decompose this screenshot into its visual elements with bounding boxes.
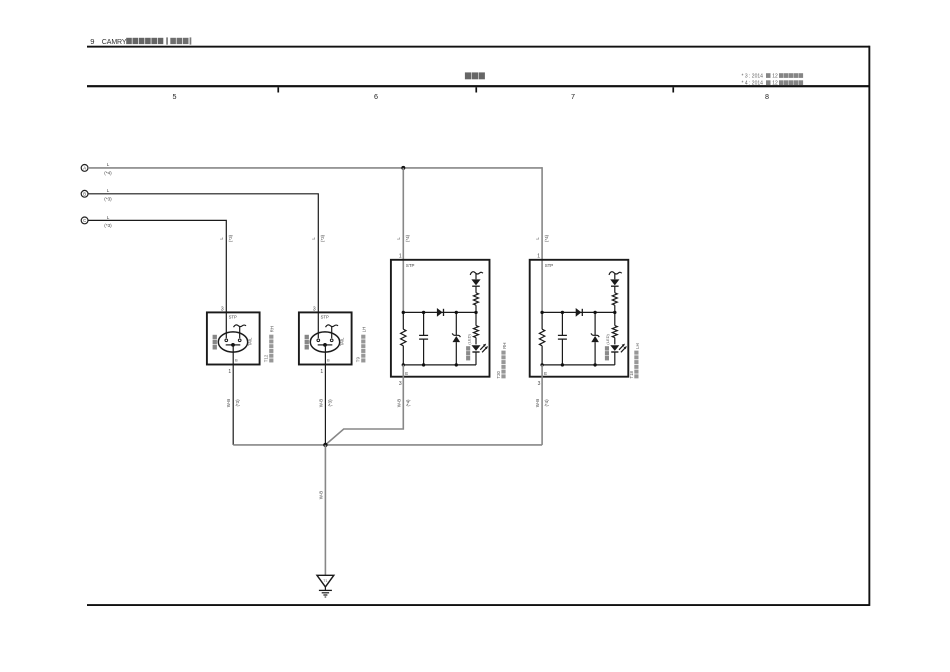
svg-text:W-B: W-B	[318, 399, 323, 408]
wire label W-B (*3) at x=233.2	[226, 399, 240, 408]
svg-text:TAIL: TAIL	[248, 337, 253, 346]
svg-text:T1: T1	[323, 579, 327, 583]
svg-text:12: 12	[772, 74, 778, 80]
wire T20 to ground bus	[325, 365, 403, 445]
title 刹车灯	[465, 72, 485, 79]
svg-text:CAMRY: CAMRY	[102, 39, 127, 46]
bottom frame rule	[87, 604, 870, 606]
svg-text:W-B: W-B	[535, 399, 540, 408]
diode in T20 on top rail	[437, 308, 444, 317]
node dot T20 bottom rail x=424	[422, 363, 425, 366]
svg-text:STP: STP	[406, 263, 415, 268]
resistor in T20 tail branch	[474, 293, 479, 305]
T20 designation T20 label	[496, 343, 507, 379]
svg-text:(*3): (*3)	[327, 399, 332, 407]
T18 main wire internal segs	[541, 312, 543, 365]
node dot T18 top rail x=595	[593, 311, 596, 314]
ground wire	[324, 445, 326, 575]
connector circle A	[81, 165, 88, 172]
wire label L (*4) at x=542.1	[535, 234, 549, 242]
wire label L (*3)	[104, 215, 112, 228]
svg-text:7: 7	[571, 92, 575, 101]
node junction on wire A	[401, 166, 405, 170]
T18 stop LED rotated label	[605, 333, 610, 360]
svg-text:RH: RH	[502, 343, 507, 349]
bulb T9 envelope	[310, 332, 339, 352]
svg-text:(*4): (*4)	[544, 399, 549, 407]
resistor in T18 stop branch	[612, 312, 617, 344]
note *4 production date	[742, 80, 804, 86]
wire label L (*4) at x=403.3	[396, 234, 410, 242]
wire C	[88, 220, 226, 312]
rear combination lamp T9 box	[299, 312, 352, 364]
bulb T12 common bar	[226, 344, 241, 346]
ruler tick 2	[475, 87, 477, 92]
capacitor in T18	[558, 312, 567, 365]
wire T12 to ground bus	[232, 345, 234, 445]
T20 tail squiggle	[470, 272, 483, 275]
svg-text:(*4): (*4)	[405, 234, 410, 242]
wire label W-B (*3) at x=325.4	[318, 399, 332, 408]
bulb T9 tail filament lead	[330, 326, 333, 341]
bulb T9 common node dot	[323, 343, 327, 347]
ground symbol T1	[317, 575, 334, 597]
svg-text:(LED): (LED)	[466, 333, 471, 344]
ruler line	[87, 85, 870, 87]
svg-text:B: B	[327, 357, 330, 362]
bulb T12 common node dot	[231, 343, 235, 347]
tail LED in T18	[610, 274, 619, 293]
ruler tick 1	[277, 87, 279, 92]
resistor in T18 on main wire	[539, 329, 544, 346]
svg-text:L: L	[535, 237, 540, 240]
bulb T9 tail circuit squiggle	[326, 325, 339, 327]
svg-text:(*3): (*3)	[320, 234, 325, 242]
note *3 production date	[742, 73, 804, 79]
svg-text:B: B	[83, 191, 86, 196]
svg-text:STP: STP	[545, 263, 554, 268]
LED rear lamp T20 box	[391, 260, 490, 377]
svg-text:B: B	[235, 357, 238, 362]
node dot T18 bottom rail x=562	[561, 363, 564, 366]
svg-text:T18: T18	[629, 370, 634, 378]
svg-text:(*3): (*3)	[235, 399, 240, 407]
svg-text:W-B: W-B	[396, 399, 401, 408]
wire label W-B (*4) at x=542.1	[535, 399, 549, 408]
page header text	[90, 37, 191, 46]
svg-text:L: L	[311, 237, 316, 240]
wire label L (*3) at x=226.3	[219, 234, 233, 242]
node dot T20 top rail x=456	[455, 311, 458, 314]
connector circle C	[81, 217, 88, 224]
svg-text:L: L	[396, 237, 401, 240]
node dot T18 bottom rail x=542	[540, 363, 543, 366]
node dot T18 top rail x=562	[561, 311, 564, 314]
diode in T18 on top rail	[576, 308, 583, 317]
svg-text:A: A	[83, 166, 86, 171]
T18 bottom rail wire	[542, 364, 615, 366]
node dot T20 bottom rail x=403	[402, 363, 405, 366]
T20 bottom rail wire	[403, 364, 476, 366]
svg-text:RH: RH	[270, 326, 275, 332]
ground bus wire	[233, 444, 542, 446]
svg-text:TAIL: TAIL	[340, 337, 345, 346]
bulb T9 stop filament lead	[317, 312, 320, 341]
wire A branch down to U3 pin 1	[402, 168, 404, 313]
svg-text:T12: T12	[264, 354, 269, 362]
wire B	[88, 194, 318, 313]
svg-text:W-B: W-B	[226, 399, 231, 408]
T12 刹车灯 rotated label	[213, 335, 217, 350]
T20 stop LED rotated label	[466, 333, 471, 360]
tail LED in T20	[471, 274, 480, 293]
svg-text:L: L	[107, 188, 110, 193]
svg-text:(*4): (*4)	[405, 399, 410, 407]
T9 designation T9 label	[356, 327, 367, 363]
T18 top rail wire	[542, 311, 615, 313]
LED rear lamp T18 box	[530, 260, 629, 377]
svg-text:STP: STP	[321, 315, 329, 320]
rear combination lamp T12 box	[207, 312, 260, 364]
svg-text:(*4): (*4)	[104, 171, 112, 176]
svg-text:5: 5	[173, 92, 177, 101]
svg-text:E: E	[544, 371, 547, 376]
zener diode in T20	[452, 312, 460, 365]
svg-text:L: L	[107, 215, 110, 220]
svg-text:(*3): (*3)	[228, 234, 233, 242]
T20 top rail wire	[403, 311, 476, 313]
svg-text:1: 1	[320, 369, 323, 375]
resistor in T20 stop branch	[474, 312, 479, 344]
svg-text:W-B: W-B	[318, 491, 323, 500]
svg-text:L: L	[107, 162, 110, 167]
svg-text:3: 3	[399, 381, 402, 387]
bulb T12 stop filament lead	[225, 312, 228, 341]
svg-text:LH: LH	[635, 343, 640, 349]
svg-text:(*3): (*3)	[104, 196, 112, 201]
T20 main wire internal segs	[402, 312, 404, 365]
svg-text:LH: LH	[362, 327, 367, 333]
svg-text:9: 9	[90, 37, 94, 46]
T18 designation T18 label	[629, 343, 640, 378]
svg-text:T9: T9	[356, 357, 361, 363]
bulb T9 common bar	[318, 344, 333, 346]
capacitor in T20	[419, 312, 428, 365]
svg-text:3: 3	[538, 381, 541, 387]
wire label L (*4)	[104, 162, 112, 175]
wire label W-B (*4) at x=403.3	[396, 399, 410, 408]
wire T18 to ground bus	[541, 365, 543, 445]
resistor in T20 on main wire	[401, 329, 406, 346]
connector circle B	[81, 190, 88, 197]
svg-text:T20: T20	[496, 370, 501, 378]
svg-text:(*3): (*3)	[104, 223, 112, 228]
node dot T20 top rail x=476	[474, 311, 477, 314]
svg-text:* 3 : 2014: * 3 : 2014	[742, 74, 764, 80]
stop LED in T20	[472, 344, 489, 365]
ruler tick 3	[672, 87, 674, 92]
resistor in T18 tail branch	[612, 293, 617, 305]
right frame border	[868, 46, 870, 606]
zener diode in T18	[591, 312, 599, 365]
wire label L (*3)	[104, 188, 112, 201]
wire T9 to ground bus	[324, 345, 326, 445]
svg-text:(*4): (*4)	[544, 234, 549, 242]
svg-text:1: 1	[399, 254, 402, 260]
svg-text:1: 1	[537, 254, 540, 260]
bulb T12 envelope	[218, 332, 247, 352]
header rule	[87, 46, 870, 48]
wire label L (*3) at x=318.3	[311, 234, 325, 242]
svg-text:6: 6	[374, 92, 378, 101]
T18 tail squiggle	[609, 272, 622, 275]
ground bus junction dot	[323, 443, 327, 447]
bulb T12 tail circuit squiggle	[234, 325, 247, 327]
node dot T20 top rail x=424	[422, 311, 425, 314]
wire A corner down to U4 pin 1	[541, 167, 543, 312]
svg-text:C: C	[83, 218, 86, 223]
svg-text:(LED): (LED)	[605, 333, 610, 344]
svg-text:E: E	[405, 371, 408, 376]
node dot T20 top rail x=403	[402, 311, 405, 314]
stop LED in T18	[610, 344, 627, 365]
wire A horizontal	[88, 167, 542, 169]
node dot T18 top rail x=542	[540, 311, 543, 314]
bulb T12 tail filament lead	[238, 326, 241, 341]
node dot T18 top rail x=615	[613, 311, 616, 314]
node dot T20 bottom rail x=456	[455, 363, 458, 366]
svg-text:8: 8	[765, 92, 769, 101]
svg-text:L: L	[219, 237, 224, 240]
node dot T18 bottom rail x=595	[593, 363, 596, 366]
T12 designation T12 label	[264, 326, 275, 362]
svg-text:STP: STP	[229, 315, 237, 320]
T20 tail branch lower wire	[475, 305, 477, 312]
T18 tail branch lower wire	[614, 305, 616, 312]
svg-text:1: 1	[228, 369, 231, 375]
T9 刹车灯 rotated label	[305, 335, 309, 350]
